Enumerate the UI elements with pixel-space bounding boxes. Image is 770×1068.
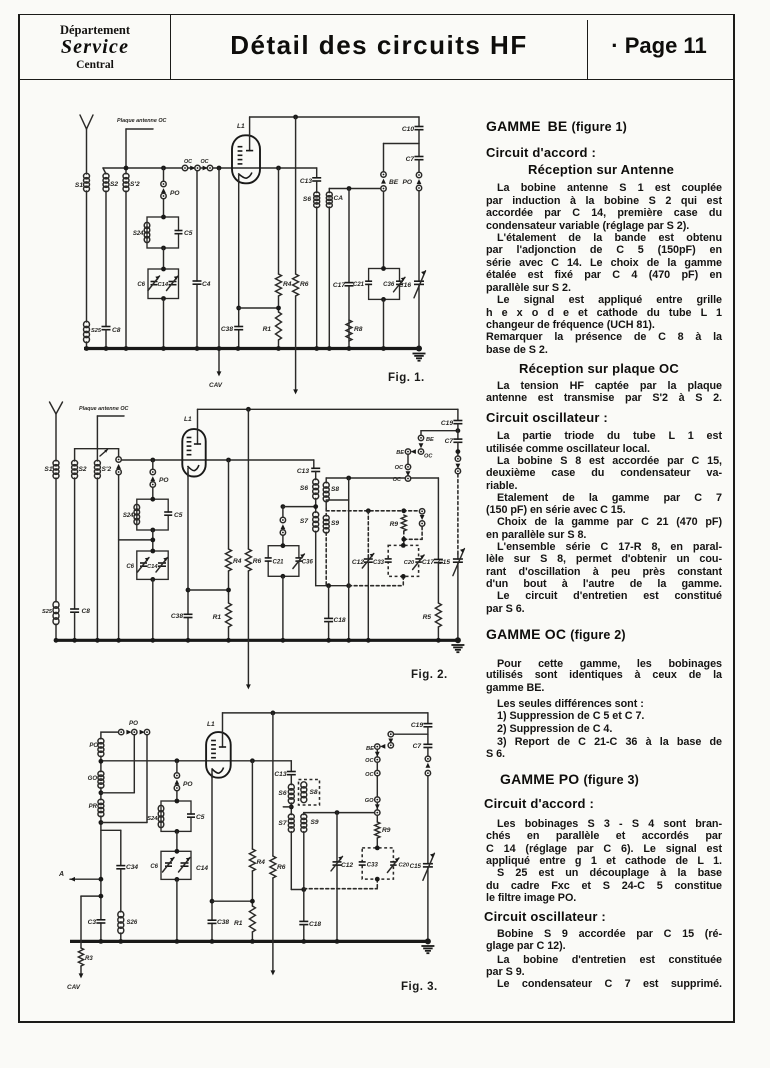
- svg-text:C38: C38: [171, 613, 183, 620]
- svg-text:S6: S6: [303, 196, 311, 203]
- resistor R3: [78, 948, 83, 966]
- capacitor C6 / C14 box: [161, 851, 191, 879]
- switch: [427, 748, 429, 756]
- capacitor C7: [457, 424, 459, 439]
- capacitor C15: [456, 560, 459, 562]
- coil S6: [290, 775, 292, 785]
- coil S7: [313, 512, 319, 518]
- node A: [70, 878, 101, 880]
- ground bus wire: [70, 940, 428, 943]
- svg-text:R4: R4: [233, 558, 242, 565]
- wire: [406, 471, 411, 476]
- svg-text:Plaque antenne OC: Plaque antenne OC: [79, 406, 129, 412]
- resistor R1: [249, 906, 255, 932]
- svg-text:GO: GO: [365, 798, 374, 804]
- svg-text:C33: C33: [367, 863, 379, 869]
- svg-text:S2: S2: [110, 181, 118, 188]
- wire: [304, 812, 378, 814]
- svg-text:S7: S7: [278, 820, 286, 827]
- svg-text:R6: R6: [277, 864, 286, 871]
- wire: [100, 816, 102, 941]
- svg-text:OC: OC: [365, 758, 374, 764]
- coil S1: [84, 173, 90, 179]
- wire cathode: [187, 472, 189, 640]
- svg-text:PO: PO: [402, 179, 412, 186]
- svg-text:C20: C20: [404, 560, 415, 566]
- header divider 1: [170, 14, 171, 79]
- svg-text:S26: S26: [127, 920, 138, 926]
- svg-text:S24: S24: [133, 231, 144, 237]
- coil S26: [120, 869, 122, 912]
- svg-text:CAV: CAV: [67, 984, 81, 991]
- wire: [96, 478, 98, 640]
- resistor R6: [293, 115, 298, 120]
- svg-text:C14: C14: [147, 564, 158, 570]
- wire: [290, 832, 292, 890]
- capacitor C33 / C20 box dashed: [388, 545, 418, 576]
- figure 2: [42, 402, 464, 689]
- capacitor C16: [417, 282, 420, 284]
- wire: [212, 900, 252, 902]
- coil S6: [315, 472, 317, 480]
- svg-text:R4: R4: [283, 281, 292, 288]
- resistor R6: [271, 711, 276, 716]
- capacitor C17: [437, 478, 439, 559]
- coil S24 / capacitor C5 box: [161, 801, 191, 831]
- ground: [455, 637, 461, 643]
- svg-text:S24: S24: [147, 816, 158, 822]
- svg-text:S6: S6: [278, 790, 286, 797]
- switch PO: [150, 469, 155, 474]
- header: Service: [40, 36, 150, 59]
- resistor R9: [401, 515, 406, 531]
- wire: [81, 895, 101, 897]
- svg-text:C7: C7: [445, 438, 454, 445]
- svg-text:S24: S24: [123, 513, 134, 519]
- ground bus wire: [54, 639, 458, 642]
- svg-text:S6: S6: [300, 485, 308, 492]
- coil S8 dashed box: [299, 780, 320, 806]
- wire top rail: [250, 116, 419, 118]
- wire top rail: [223, 712, 428, 714]
- wire: [383, 299, 385, 348]
- svg-text:R6: R6: [300, 281, 309, 288]
- figure 1: [75, 115, 426, 395]
- capacitor C8: [73, 610, 76, 612]
- svg-text:GO: GO: [88, 776, 98, 782]
- capacitor C7: [418, 130, 420, 157]
- switch BE: [383, 144, 385, 172]
- svg-text:R3: R3: [85, 956, 93, 962]
- header: title: [177, 30, 581, 61]
- svg-text:C5: C5: [196, 814, 205, 821]
- wire grid rail: [122, 459, 314, 461]
- svg-text:C38: C38: [217, 919, 229, 926]
- capacitor C38: [237, 327, 240, 329]
- svg-text:C7: C7: [413, 743, 422, 750]
- switch: [100, 450, 108, 457]
- svg-text:L1: L1: [207, 721, 215, 728]
- antenna: [50, 402, 63, 414]
- wire: [420, 431, 422, 435]
- header divider 2: [587, 20, 588, 79]
- svg-text:C12: C12: [341, 862, 353, 869]
- svg-text:C4: C4: [202, 281, 211, 288]
- capacitor C13: [290, 761, 292, 772]
- svg-text:C20: C20: [399, 863, 410, 869]
- node CAV: [217, 166, 222, 171]
- svg-text:OC: OC: [184, 159, 192, 165]
- svg-text:C8: C8: [112, 327, 121, 334]
- resistor R1: [276, 312, 282, 340]
- wire: [384, 143, 420, 145]
- coil S1: [53, 460, 59, 466]
- svg-text:S25: S25: [42, 609, 53, 615]
- capacitor C18: [328, 586, 330, 619]
- svg-text:C6: C6: [137, 282, 145, 288]
- svg-text:C10: C10: [402, 126, 414, 133]
- wire: [282, 576, 284, 640]
- svg-text:C3: C3: [88, 919, 97, 926]
- coil S7: [288, 814, 294, 820]
- svg-text:S1: S1: [44, 466, 52, 473]
- capacitor C12: [336, 813, 338, 942]
- svg-text:R1: R1: [263, 326, 272, 333]
- svg-text:C17: C17: [422, 559, 434, 566]
- wire: [239, 307, 279, 309]
- wire cathode: [238, 180, 240, 349]
- svg-text:Plaque antenne OC: Plaque antenne OC: [117, 118, 167, 124]
- wire: [163, 299, 165, 349]
- svg-text:C14: C14: [196, 865, 208, 872]
- svg-text:C13: C13: [300, 178, 312, 185]
- svg-text:C15: C15: [410, 863, 422, 870]
- wire: [175, 758, 180, 763]
- capacitor C19: [457, 409, 459, 420]
- svg-text:C5: C5: [174, 512, 183, 519]
- svg-text:C21: C21: [273, 560, 285, 566]
- svg-text:R4: R4: [257, 859, 266, 866]
- switch BE left: [118, 449, 120, 457]
- resistor R1: [226, 603, 232, 627]
- wire: [290, 803, 292, 815]
- svg-text:S8: S8: [331, 486, 339, 493]
- resistor R8: [346, 320, 352, 341]
- switch OC: [375, 757, 380, 762]
- switch BE: [388, 732, 393, 737]
- svg-text:Fig. 2.: Fig. 2.: [411, 669, 448, 681]
- coil S25: [53, 601, 59, 608]
- svg-text:C19: C19: [411, 722, 423, 729]
- coil CA: [328, 189, 330, 193]
- wire: [376, 803, 378, 810]
- svg-text:C38: C38: [221, 326, 233, 333]
- svg-text:Fig. 3.: Fig. 3.: [401, 981, 438, 993]
- switch contacts: [419, 509, 424, 514]
- capacitor C21 / C36 box: [369, 269, 400, 300]
- header: page number: [588, 33, 730, 59]
- svg-text:S9: S9: [331, 520, 339, 527]
- wire: [281, 504, 286, 509]
- header bottom rule: [18, 79, 734, 81]
- svg-text:C36: C36: [302, 560, 314, 566]
- capacitor C13: [313, 460, 315, 468]
- wire: [103, 168, 106, 174]
- svg-text:R1: R1: [213, 614, 222, 621]
- svg-text:R9: R9: [390, 521, 399, 528]
- page frame right border: [733, 14, 735, 1023]
- capacitor C21 / C36 box: [268, 546, 299, 577]
- wire: [376, 763, 378, 771]
- svg-text:L1: L1: [237, 123, 245, 130]
- wire: [100, 788, 102, 800]
- wire: [96, 416, 98, 461]
- capacitor C17: [348, 189, 350, 349]
- wire: [303, 832, 305, 890]
- capacitor C6 / C14 box: [137, 551, 168, 579]
- wire: [346, 476, 351, 481]
- svg-text:C13: C13: [274, 771, 286, 778]
- svg-text:PO: PO: [89, 743, 98, 749]
- page frame top border: [18, 14, 734, 16]
- capacitor C10: [418, 117, 420, 127]
- svg-text:C12: C12: [352, 559, 364, 566]
- svg-text:R5: R5: [423, 614, 432, 621]
- antenna: [80, 115, 93, 129]
- wire: [146, 735, 148, 822]
- svg-text:S'2: S'2: [102, 466, 112, 473]
- capacitor C33 / C20 box dashed: [362, 848, 393, 879]
- wire: [176, 879, 178, 941]
- coil S24 / capacitor C5 box: [137, 499, 168, 530]
- junction dots: [99, 939, 104, 944]
- svg-text:C34: C34: [126, 864, 138, 871]
- svg-text:R6: R6: [253, 558, 262, 565]
- tube L1: [206, 732, 231, 778]
- svg-text:C17: C17: [333, 282, 345, 289]
- junction dots: [84, 346, 89, 351]
- coil S9: [325, 508, 327, 516]
- svg-text:C8: C8: [82, 608, 91, 615]
- coil S2: [103, 173, 109, 179]
- switch PO: [174, 773, 179, 778]
- header: Département: [40, 23, 150, 38]
- svg-text:C14: C14: [158, 282, 169, 288]
- svg-text:PO: PO: [159, 477, 169, 484]
- tube L1: [232, 135, 260, 183]
- ground bus wire: [84, 347, 421, 350]
- capacitor C13: [316, 168, 318, 178]
- junction dots: [54, 638, 59, 643]
- switch: [455, 456, 460, 461]
- svg-text:L1: L1: [184, 416, 192, 423]
- coil S'2: [123, 173, 129, 179]
- capacitor C38: [210, 921, 213, 923]
- wire: [152, 579, 154, 640]
- svg-text:S25: S25: [91, 328, 102, 334]
- svg-text:S2: S2: [79, 466, 87, 473]
- switch PO: [161, 166, 166, 171]
- ground: [425, 938, 431, 944]
- wire: [101, 829, 121, 831]
- capacitor C38: [186, 615, 189, 617]
- wire: [152, 530, 154, 551]
- capacitor C15: [426, 864, 429, 866]
- coil S8: [325, 478, 327, 483]
- svg-text:C16: C16: [399, 282, 411, 289]
- switch PO: [280, 517, 285, 522]
- wire top rail: [198, 408, 458, 410]
- svg-text:C7: C7: [406, 156, 415, 163]
- coil PO: [98, 738, 104, 744]
- wire: [125, 129, 127, 174]
- resistor R5: [437, 563, 439, 603]
- svg-text:C21: C21: [353, 282, 365, 288]
- svg-text:C6: C6: [150, 864, 158, 870]
- svg-text:OC: OC: [200, 159, 208, 165]
- wire: [75, 448, 119, 450]
- svg-text:C5: C5: [184, 230, 193, 237]
- coil S24 / capacitor C5 box: [147, 217, 179, 248]
- resistor R4: [276, 166, 281, 171]
- switch PO right: [418, 160, 420, 172]
- page frame left border: [18, 14, 20, 1023]
- svg-text:BE: BE: [389, 179, 399, 186]
- wire: [176, 831, 178, 851]
- svg-text:A: A: [58, 871, 64, 878]
- coil S6: [316, 181, 318, 193]
- svg-text:C36: C36: [383, 282, 395, 288]
- coil S9: [301, 814, 307, 820]
- wire grid rail: [103, 167, 317, 169]
- svg-text:C18: C18: [309, 921, 321, 928]
- node CAV: [80, 966, 82, 975]
- figure 3: [58, 711, 438, 994]
- wire: [315, 498, 317, 512]
- resistor R9: [376, 816, 378, 822]
- wire grid rail: [101, 760, 291, 762]
- wire: [325, 501, 327, 508]
- wire: [163, 248, 165, 269]
- wire: [133, 735, 135, 793]
- svg-text:OC: OC: [393, 477, 402, 483]
- capacitor C7: [427, 727, 429, 745]
- wire: [188, 589, 229, 591]
- wire cathode: [211, 774, 213, 941]
- coil S25: [84, 321, 90, 327]
- wire: [457, 442, 459, 455]
- capacitor C12: [367, 511, 369, 559]
- wire: [329, 188, 380, 190]
- wire: [315, 531, 317, 586]
- resistor R4: [226, 458, 231, 463]
- svg-text:S8: S8: [310, 789, 318, 796]
- switch GO: [375, 797, 380, 802]
- svg-text:R8: R8: [354, 326, 363, 333]
- coil S2: [74, 449, 76, 461]
- svg-text:S9: S9: [311, 819, 319, 826]
- svg-text:R1: R1: [234, 920, 243, 927]
- svg-text:R9: R9: [382, 827, 391, 834]
- svg-text:BE: BE: [396, 450, 404, 456]
- capacitor C34: [120, 830, 122, 865]
- svg-text:OC: OC: [424, 454, 433, 460]
- header: Central: [40, 59, 150, 71]
- svg-text:S'2: S'2: [130, 181, 140, 188]
- svg-text:BE: BE: [366, 746, 375, 752]
- svg-text:C13: C13: [297, 468, 309, 475]
- coil S'2: [94, 460, 100, 466]
- wire: [150, 458, 155, 463]
- svg-text:OC: OC: [365, 772, 374, 778]
- svg-text:PO: PO: [129, 720, 138, 727]
- switch OC: [182, 165, 187, 170]
- svg-text:S7: S7: [300, 518, 308, 525]
- coil GO: [98, 771, 104, 776]
- switch BE: [405, 449, 410, 454]
- svg-text:C19: C19: [441, 420, 453, 427]
- svg-text:CA: CA: [334, 195, 344, 202]
- wire: [376, 750, 378, 757]
- capacitor C8: [104, 327, 107, 329]
- wire dashed: [326, 510, 422, 512]
- svg-text:PO: PO: [170, 190, 180, 197]
- capacitor C4: [195, 166, 200, 171]
- capacitor C3: [99, 921, 102, 923]
- capacitor C6 / C14 box: [148, 269, 179, 299]
- capacitor C19: [427, 713, 429, 724]
- wire dashed: [457, 474, 459, 554]
- svg-text:C6: C6: [126, 564, 134, 570]
- svg-text:OC: OC: [395, 465, 404, 471]
- wire dashed: [304, 879, 378, 889]
- svg-text:C15: C15: [438, 559, 450, 566]
- switch OC: [405, 464, 410, 469]
- svg-text:CAV: CAV: [209, 382, 223, 389]
- resistor R6: [246, 407, 251, 412]
- svg-text:C18: C18: [334, 617, 346, 624]
- wire: [100, 756, 102, 772]
- ground: [416, 346, 422, 352]
- resistor R4: [250, 758, 255, 763]
- page frame bottom border: [18, 1021, 734, 1023]
- tube L1: [182, 429, 205, 476]
- svg-text:PO: PO: [183, 781, 193, 788]
- wire: [326, 477, 438, 479]
- svg-text:S1: S1: [75, 182, 83, 189]
- svg-text:Fig. 1.: Fig. 1.: [388, 372, 425, 384]
- capacitor C18: [303, 890, 305, 922]
- svg-text:PR: PR: [89, 804, 98, 810]
- coil PR: [98, 799, 104, 804]
- svg-text:C33: C33: [373, 560, 385, 566]
- svg-text:BE: BE: [426, 437, 434, 443]
